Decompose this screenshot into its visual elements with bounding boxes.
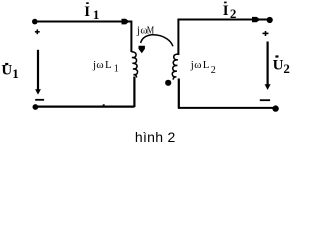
svg-text:I: I xyxy=(84,4,90,20)
polarity + (port 2) xyxy=(263,31,269,36)
svg-text:1: 1 xyxy=(93,7,100,22)
current arrow I2 (arrowhead on top-right wire) xyxy=(252,17,261,22)
label jωM xyxy=(136,24,155,36)
svg-text:U: U xyxy=(273,58,284,74)
svg-text:ω: ω xyxy=(96,59,103,71)
label jωL2 xyxy=(190,59,216,76)
wire: top-left horizontal (port 1 top) xyxy=(35,21,132,23)
svg-text:ω: ω xyxy=(194,59,201,71)
voltage arrow U1 (pointing down) xyxy=(35,50,41,95)
polarity − (port 2) xyxy=(260,99,270,101)
inductor L2 coil xyxy=(172,54,178,80)
wire: left branch vertical (bottom section) xyxy=(133,77,135,108)
node: port-2 upper terminal dot xyxy=(267,17,273,23)
svg-text:2: 2 xyxy=(230,6,237,21)
wire: top-right horizontal (port 2 top) xyxy=(178,19,270,21)
junction tick on bottom-left wire xyxy=(103,104,105,106)
label İ1 xyxy=(84,2,99,22)
wire: right branch vertical (top section) xyxy=(177,19,179,56)
polarity dot at L2 bottom xyxy=(165,80,171,86)
node: port-1 lower terminal dot xyxy=(33,104,39,110)
label jωL1 xyxy=(92,59,119,75)
wire: left branch vertical (top section) xyxy=(130,21,132,53)
label Û1 xyxy=(1,63,18,81)
label Û2 xyxy=(273,55,290,76)
label İ2 xyxy=(223,2,237,22)
svg-text:L: L xyxy=(203,59,210,71)
svg-text:2: 2 xyxy=(283,61,290,76)
svg-text:1: 1 xyxy=(12,66,19,81)
current arrow I1 (arrowhead on top-left wire) xyxy=(122,19,130,25)
wire: bottom-right horizontal (port 2 bottom) xyxy=(178,107,274,109)
svg-text:L: L xyxy=(105,59,112,71)
svg-text:I: I xyxy=(223,3,229,19)
svg-text:M: M xyxy=(147,25,155,36)
polarity − (port 1) xyxy=(35,99,44,101)
wire: right branch vertical (bottom section) xyxy=(178,79,180,109)
arrowhead of coupling arc (points down at L1 top) xyxy=(139,46,145,53)
mutual coupling arc jωM xyxy=(141,35,173,46)
inductor L1 coil xyxy=(131,52,137,78)
voltage arrow U2 (pointing down) xyxy=(265,42,271,91)
wire: bottom-left horizontal (port 1 bottom) xyxy=(35,105,135,107)
svg-text:2: 2 xyxy=(211,65,216,76)
svg-text:hình 2: hình 2 xyxy=(135,129,176,145)
svg-text:1: 1 xyxy=(114,63,119,74)
polarity + (port 1) xyxy=(35,29,40,34)
node: port-2 lower terminal dot xyxy=(272,105,278,111)
node: port-1 upper terminal dot xyxy=(32,19,38,25)
